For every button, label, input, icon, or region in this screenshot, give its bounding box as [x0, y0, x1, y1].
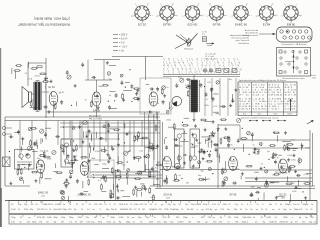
- junction: [87, 176, 88, 177]
- resistor: [274, 173, 278, 175]
- trimmer capacitor: [166, 110, 169, 113]
- ground: [82, 140, 84, 142]
- resistor: [149, 188, 151, 192]
- capacitor: [256, 191, 258, 194]
- resistor: [15, 70, 19, 72]
- svg-text:470k: 470k: [24, 209, 28, 211]
- wire: [81, 121, 83, 161]
- wire: [70, 140, 72, 146]
- ground: [73, 149, 75, 151]
- junction: [129, 69, 130, 70]
- svg-text:10n: 10n: [185, 204, 188, 206]
- wire: [36, 139, 38, 146]
- junction: [47, 78, 48, 79]
- capacitor: [165, 146, 168, 148]
- wire: [15, 71, 17, 79]
- svg-text:g: g: [231, 62, 232, 64]
- svg-text:5n: 5n: [19, 222, 21, 224]
- resistor: [30, 102, 32, 106]
- svg-text:Rundfunkschau für Type „Freude: Rundfunkschau für Type „Freudenstadt": [17, 23, 70, 27]
- ground: [26, 153, 28, 155]
- svg-text:a: a: [226, 15, 227, 17]
- ground: [116, 185, 118, 187]
- wire: [45, 127, 51, 129]
- wire: [149, 121, 151, 153]
- wire: [30, 107, 39, 109]
- svg-text:100k: 100k: [124, 209, 128, 211]
- svg-text:g2: g2: [198, 3, 200, 5]
- wire: [117, 189, 119, 192]
- svg-text:ws: ws: [92, 209, 94, 211]
- svg-text:g2: g2: [256, 16, 258, 18]
- parts list strip 2: [9, 215, 317, 225]
- svg-text:1k: 1k: [75, 222, 77, 224]
- svg-text:10n: 10n: [293, 204, 296, 206]
- ground: [22, 137, 24, 139]
- scan edge left: [0, 48, 2, 227]
- junction: [124, 142, 125, 143]
- svg-text:5k: 5k: [306, 204, 308, 206]
- resistor: [174, 179, 178, 181]
- resistor: [17, 170, 19, 174]
- svg-text:5k: 5k: [168, 217, 170, 219]
- junction: [24, 167, 25, 168]
- svg-text:= –12 V: = –12 V: [119, 46, 128, 49]
- switch: [224, 69, 229, 73]
- svg-text:4: 4: [186, 72, 187, 74]
- svg-text:Lautsprecher u. TA-Buchsen: Lautsprecher u. TA-Buchsen: [281, 43, 306, 46]
- wire: [53, 171, 58, 173]
- ground: [225, 127, 227, 129]
- ground: [79, 125, 81, 127]
- wire: [286, 176, 288, 182]
- resistor: [105, 177, 107, 181]
- wire: [178, 155, 180, 163]
- resistor: [287, 183, 291, 185]
- ground: [107, 153, 109, 155]
- resistor: [133, 190, 135, 194]
- capacitor: [175, 84, 178, 86]
- svg-text:46: 46: [285, 94, 287, 96]
- wire: [90, 146, 92, 153]
- junction: [261, 145, 262, 146]
- wire contact bus: [163, 74, 240, 76]
- wire: [293, 148, 298, 150]
- ground: [66, 178, 68, 180]
- svg-text:2n: 2n: [45, 209, 47, 211]
- svg-text:2n: 2n: [155, 204, 157, 206]
- capacitor: [205, 93, 208, 95]
- ground: [281, 165, 283, 167]
- svg-text:470k: 470k: [37, 217, 41, 219]
- junction: [268, 159, 269, 160]
- svg-text:1M: 1M: [142, 209, 145, 211]
- svg-text:Tr: Tr: [99, 209, 101, 211]
- svg-text:= Uo: = Uo: [119, 50, 125, 53]
- resistor: [110, 191, 112, 195]
- junction: [131, 101, 132, 102]
- trimmer capacitor: [138, 171, 142, 175]
- ground: [196, 138, 198, 140]
- wire: [219, 154, 221, 163]
- svg-text:4: 4: [189, 59, 190, 61]
- wire: [205, 139, 207, 144]
- svg-text:EF 89: EF 89: [230, 194, 237, 197]
- capacitor: [208, 154, 211, 156]
- capacitor: [34, 142, 36, 145]
- svg-text:100k: 100k: [119, 204, 123, 206]
- ground: [235, 88, 237, 90]
- tube EC92: [149, 92, 158, 106]
- resistor: [90, 102, 92, 106]
- capacitor: [87, 159, 90, 161]
- capacitor: [125, 133, 127, 136]
- antenna sockets: [3, 127, 6, 130]
- wire: [240, 139, 310, 141]
- svg-text:4,7k: 4,7k: [163, 217, 167, 219]
- wire: [96, 106, 98, 117]
- svg-text:0,1: 0,1: [264, 92, 267, 94]
- ground: [29, 163, 31, 165]
- wire bundle: [144, 112, 146, 172]
- resistor: [30, 141, 32, 145]
- wire: [159, 120, 161, 188]
- capacitor: [227, 144, 230, 146]
- ground: [241, 172, 243, 174]
- resistor: [118, 162, 122, 164]
- wire: [279, 172, 287, 174]
- svg-text:7: 7: [223, 72, 224, 74]
- junction: [302, 191, 303, 192]
- svg-text:(x2): (x2): [41, 196, 45, 198]
- svg-text:Spulenbestückung und Abgleichf: Spulenbestückung und Abgleichfolge der Z…: [239, 79, 287, 82]
- ground: [48, 110, 50, 112]
- tube EF89: [92, 92, 101, 106]
- wire: [153, 114, 155, 186]
- svg-text:EC 92: EC 92: [149, 116, 157, 119]
- svg-text:96: 96: [246, 108, 248, 110]
- trimmer capacitor: [120, 74, 123, 77]
- wire: [32, 93, 35, 95]
- wire: [62, 145, 160, 147]
- dial lamp: [203, 69, 206, 72]
- svg-text:0,5M: 0,5M: [209, 141, 214, 143]
- resistor: [152, 146, 154, 150]
- wire: [269, 182, 274, 184]
- svg-text:= 6,3 V~: = 6,3 V~: [119, 38, 129, 41]
- junction: [233, 159, 234, 160]
- svg-text:L: L: [171, 65, 172, 67]
- wire: [277, 195, 285, 197]
- capacitor: [117, 169, 119, 172]
- trimmer capacitor: [52, 150, 56, 154]
- capacitor: [174, 138, 176, 141]
- wire: [44, 178, 51, 180]
- trimmer capacitor: [264, 183, 268, 187]
- wire: [179, 156, 181, 164]
- junction: [73, 140, 74, 141]
- capacitor: [60, 101, 63, 103]
- wire: [109, 64, 116, 66]
- ground: [295, 170, 297, 172]
- junction: [118, 179, 119, 180]
- capacitor: [121, 81, 124, 83]
- svg-text:4,7k: 4,7k: [299, 209, 303, 211]
- svg-text:0,5M: 0,5M: [46, 204, 51, 206]
- svg-text:4: 4: [173, 59, 174, 61]
- wire: [292, 149, 295, 151]
- capacitor: [272, 153, 275, 155]
- svg-text:Tr: Tr: [262, 204, 264, 206]
- resistor: [222, 182, 224, 186]
- trimmer capacitor: [162, 86, 166, 90]
- capacitor: [215, 148, 218, 150]
- svg-text:a1: a1: [172, 68, 174, 70]
- ground: [210, 88, 212, 90]
- svg-text:1k: 1k: [18, 209, 20, 211]
- svg-text:(1/2): (1/2): [166, 197, 170, 199]
- wire: [133, 121, 135, 161]
- capacitor: [250, 193, 253, 195]
- svg-text:7: 7: [269, 108, 270, 110]
- wire: [93, 121, 95, 151]
- ground: [10, 182, 12, 184]
- wire: [62, 138, 120, 140]
- resistor: [44, 81, 48, 83]
- wire: [137, 170, 144, 172]
- svg-text:12: 12: [235, 72, 237, 74]
- ground: [50, 79, 52, 81]
- svg-text:5k: 5k: [181, 209, 183, 211]
- wire: [89, 143, 91, 148]
- svg-text:12: 12: [233, 59, 235, 61]
- trimmer capacitor: [72, 126, 75, 129]
- resistor: [166, 179, 168, 183]
- svg-text:EF 89: EF 89: [163, 22, 171, 26]
- wire: [64, 160, 66, 165]
- svg-text:Tr: Tr: [275, 204, 277, 206]
- wire: [217, 124, 219, 188]
- wire: [146, 83, 149, 85]
- svg-text:g2: g2: [202, 15, 204, 17]
- wire: [92, 147, 94, 151]
- ground: [230, 104, 232, 106]
- wire: [168, 126, 175, 128]
- svg-text:0,5M: 0,5M: [119, 217, 124, 219]
- wire: [22, 163, 25, 165]
- svg-text:x2: x2: [262, 94, 264, 96]
- capacitor: [251, 133, 254, 135]
- ground: [106, 61, 108, 63]
- capacitor: [62, 149, 65, 151]
- svg-text:a1: a1: [205, 65, 207, 67]
- wire: [85, 79, 112, 81]
- resistor: [115, 129, 119, 131]
- svg-text:gn: gn: [201, 209, 203, 211]
- ground: [217, 127, 219, 129]
- svg-text:7: 7: [291, 94, 292, 96]
- resistor: [32, 68, 36, 70]
- svg-text:a: a: [160, 4, 161, 6]
- ground: [204, 128, 206, 130]
- wire: [42, 91, 50, 93]
- capacitor: [250, 194, 252, 197]
- wire: [60, 122, 160, 124]
- wire: [110, 108, 117, 110]
- wire: [113, 184, 115, 190]
- svg-text:1k: 1k: [311, 204, 313, 206]
- wire: [129, 121, 131, 153]
- capacitor: [286, 147, 289, 149]
- trimmer capacitor: [61, 191, 65, 195]
- wire: [96, 80, 98, 92]
- svg-text:46: 46: [275, 108, 277, 110]
- svg-text:EABC 80: EABC 80: [235, 22, 247, 26]
- svg-text:k3: k3: [163, 65, 165, 67]
- ground: [137, 89, 139, 91]
- wire: [251, 135, 253, 141]
- junction: [217, 130, 218, 131]
- svg-text:g: g: [172, 72, 173, 74]
- svg-text:a1: a1: [178, 62, 180, 64]
- wire: [5, 185, 30, 187]
- ground: [192, 164, 194, 166]
- ground: [193, 118, 195, 120]
- trimmer capacitor: [247, 131, 251, 135]
- coil table: [238, 74, 316, 116]
- junction: [36, 167, 37, 168]
- svg-text:2n: 2n: [63, 204, 65, 206]
- ground: [133, 156, 135, 158]
- capacitor: [115, 94, 118, 96]
- svg-text:7: 7: [201, 59, 202, 61]
- svg-text:470k: 470k: [283, 217, 287, 219]
- svg-text:5n: 5n: [285, 108, 287, 110]
- wire: [85, 132, 160, 134]
- svg-text:EF 89: EF 89: [93, 110, 100, 113]
- junction: [210, 151, 211, 152]
- wire: [94, 59, 120, 61]
- chassis pin layout box: [277, 48, 311, 81]
- capacitor: [108, 156, 111, 158]
- svg-text:5n: 5n: [245, 209, 247, 211]
- svg-text:46: 46: [248, 84, 250, 86]
- wire top bus: [112, 56, 163, 58]
- svg-text:a1: a1: [219, 65, 221, 67]
- resistor: [134, 137, 136, 141]
- strip ticks: [148, 201, 150, 204]
- capacitor: [56, 135, 58, 138]
- wire: [155, 188, 315, 190]
- wire: [100, 177, 162, 179]
- svg-text:1k: 1k: [310, 209, 312, 211]
- junction: [93, 174, 94, 175]
- capacitor: [237, 139, 240, 141]
- capacitor: [76, 180, 79, 182]
- svg-text:EM 80: EM 80: [287, 22, 296, 26]
- junction: [63, 127, 64, 128]
- capacitor: [207, 138, 209, 141]
- wire: [312, 133, 314, 186]
- wire: [141, 192, 143, 196]
- junction: [182, 122, 183, 123]
- wire: [202, 179, 208, 181]
- svg-text:EC 92: EC 92: [138, 22, 146, 26]
- junction: [128, 151, 129, 152]
- ground: [293, 154, 295, 156]
- capacitor: [81, 63, 84, 65]
- svg-text:x2: x2: [255, 108, 257, 110]
- wire: [216, 149, 218, 158]
- resistor: [138, 132, 140, 136]
- capacitor: [214, 143, 216, 146]
- resistor: [101, 149, 105, 151]
- junction: [273, 132, 274, 133]
- svg-text:46: 46: [280, 94, 282, 96]
- ground: [74, 158, 76, 160]
- wire: [106, 128, 113, 130]
- resistor: [135, 88, 139, 90]
- svg-text:(7/56) Horn. Radio Berlin): (7/56) Horn. Radio Berlin): [34, 17, 70, 21]
- svg-text:12: 12: [231, 65, 233, 67]
- wire: [14, 131, 20, 133]
- svg-text:4: 4: [223, 62, 224, 64]
- wire: [286, 143, 288, 148]
- svg-text:ECH 81: ECH 81: [187, 22, 198, 26]
- wire: [91, 133, 93, 140]
- power transformer Tr1: [189, 80, 199, 112]
- svg-text:7: 7: [192, 65, 193, 67]
- capacitor: [274, 160, 277, 162]
- wire: [160, 169, 240, 171]
- svg-text:5k: 5k: [280, 204, 282, 206]
- resistor: [228, 137, 230, 141]
- resistor: [224, 137, 228, 139]
- capacitor: [67, 155, 70, 157]
- ground: [288, 158, 290, 160]
- svg-text:1k: 1k: [241, 204, 243, 206]
- resistor: [17, 65, 21, 67]
- svg-text:46: 46: [242, 108, 244, 110]
- detector box: [90, 160, 114, 178]
- svg-text:7: 7: [242, 94, 243, 96]
- junction: [234, 149, 235, 150]
- resistor: [136, 178, 140, 180]
- adjust arrow: [307, 121, 313, 125]
- wire: [156, 112, 158, 120]
- capacitor: [100, 137, 102, 140]
- svg-text:100k: 100k: [134, 204, 138, 206]
- svg-text:250 Ω: 250 Ω: [35, 76, 41, 78]
- svg-text:4: 4: [199, 72, 200, 74]
- junction: [74, 162, 75, 163]
- svg-text:g: g: [169, 62, 170, 64]
- resistor: [45, 156, 49, 158]
- svg-text:4: 4: [163, 62, 164, 64]
- junction: [185, 154, 186, 155]
- junction: [184, 139, 185, 140]
- capacitor: [107, 124, 110, 126]
- svg-text:EL 84: EL 84: [49, 86, 56, 89]
- wire: [242, 144, 244, 152]
- IF transformer can left: [61, 139, 72, 167]
- junction: [93, 177, 94, 178]
- junction: [21, 178, 22, 179]
- svg-text:7: 7: [197, 65, 198, 67]
- speaker LS: [22, 87, 32, 108]
- capacitor: [162, 101, 165, 103]
- resistor: [274, 132, 278, 134]
